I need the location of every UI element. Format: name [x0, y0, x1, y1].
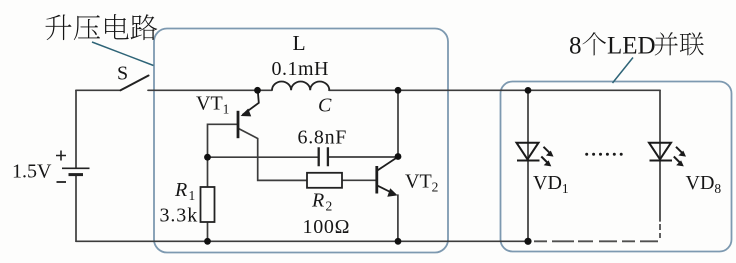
wire: R1 top lead: [207, 157, 209, 187]
wire: bottom rail: [76, 240, 528, 242]
label 升压电路: [45, 14, 157, 40]
LED VD1: [517, 143, 552, 164]
svg-text:C: C: [318, 95, 332, 117]
svg-text:8: 8: [569, 33, 582, 60]
inductor L coil: [272, 82, 329, 91]
svg-text:R: R: [311, 190, 324, 212]
battery 1.5V: long plate: [62, 167, 90, 169]
wire: VT1 collector down and to R2: [238, 128, 308, 180]
dots between LEDs: [585, 153, 623, 156]
svg-text:2: 2: [326, 199, 333, 214]
svg-text:6.8nF: 6.8nF: [298, 127, 348, 149]
LED group callout box: [501, 82, 732, 252]
label 8个LED并联: [569, 32, 704, 59]
capacitor C plates: [319, 147, 328, 166]
wire: top rail switch to inductor: [148, 89, 272, 91]
node: R1 / bottom rail: [204, 238, 211, 245]
wire: LED1 branch vertical: [527, 90, 529, 241]
wire: top rail after inductor to LED corner: [329, 89, 660, 91]
wire: top rail drop to VT2 collector node: [397, 90, 399, 156]
VD1 emission arrowheads: [546, 151, 554, 157]
wire: LED8 branch vertical upper: [659, 90, 661, 221]
svg-text:3.3k: 3.3k: [160, 205, 199, 227]
battery minus sign: [57, 181, 67, 183]
svg-text:LED: LED: [607, 33, 656, 60]
wire: VT2 emitter down to bottom rail: [397, 195, 399, 241]
wire: faded dashed bottom rail segment to LED8: [534, 224, 660, 241]
VT2 emitter arrowhead: [387, 188, 397, 197]
svg-text:L: L: [293, 31, 306, 55]
wire: node row to capacitor: [208, 156, 318, 158]
boost-circuit callout box: [154, 29, 448, 253]
VD8 emission arrowheads: [678, 151, 686, 157]
svg-text:1: 1: [189, 188, 196, 203]
svg-text:1.5V: 1.5V: [12, 161, 52, 183]
wire: VT1 base run: [208, 124, 239, 157]
node: LED1 top: [525, 87, 532, 94]
battery 1.5V: short thick plate: [69, 173, 84, 176]
node: top rail / VT1 emitter / L: [254, 87, 261, 94]
resistor R1: [201, 187, 215, 222]
svg-text:S: S: [117, 63, 128, 85]
svg-text:R: R: [174, 179, 187, 201]
transistor VT2 (NPN): [377, 157, 398, 193]
wire: R2 to VT2 base: [342, 179, 376, 181]
node: VT2 emitter / bottom rail: [395, 238, 402, 245]
transistor VT1 (PNP): [238, 91, 259, 138]
wire: R1 bottom lead: [207, 222, 209, 241]
leader line to LED box: [613, 58, 634, 84]
node: VT1 base / R1 / C: [204, 154, 211, 161]
wire: left vertical above battery: [75, 90, 77, 167]
svg-text:0.1mH: 0.1mH: [272, 58, 330, 80]
wire: top rail left of switch: [76, 89, 121, 91]
LED VD8: [649, 143, 684, 164]
switch S blade: [121, 76, 149, 91]
node: top rail / VT2 collector branch: [395, 87, 402, 94]
wire: left vertical below battery: [75, 176, 77, 242]
node: C / VT2 collector: [395, 153, 402, 160]
node: LED1 bottom: [524, 238, 531, 245]
svg-text:100Ω: 100Ω: [303, 216, 351, 238]
resistor R2: [307, 173, 342, 188]
leader line to boost box: [92, 42, 154, 66]
VT1 emitter arrowhead: [241, 109, 252, 117]
battery plus sign: [56, 151, 66, 161]
wire: capacitor to VT2 collector node: [329, 156, 398, 158]
